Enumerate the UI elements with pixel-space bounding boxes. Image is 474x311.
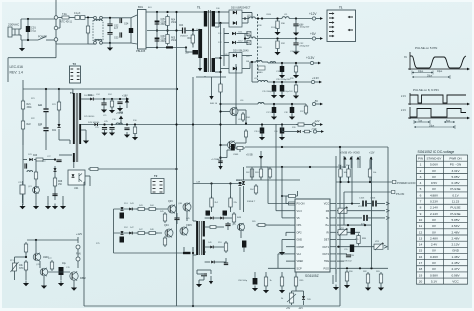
wire T1 primary bottom bbox=[199, 58, 201, 64]
resistor R61 bbox=[235, 146, 245, 149]
junction bbox=[218, 11, 220, 13]
resistor R67 bbox=[287, 202, 298, 205]
wire bbox=[58, 110, 60, 124]
resistor R53 bbox=[210, 196, 213, 209]
wire bbox=[261, 166, 268, 168]
junction bbox=[175, 123, 177, 125]
wire feedback bottom bbox=[84, 305, 340, 307]
junction bbox=[156, 29, 158, 31]
svg-text:-5V: -5V bbox=[314, 99, 318, 103]
wire sec tap1 bbox=[219, 11, 229, 13]
wire bbox=[45, 131, 47, 140]
svg-text:11.23: 11.23 bbox=[452, 200, 460, 204]
resistor R24 bbox=[110, 99, 113, 109]
wire bbox=[185, 48, 187, 53]
svg-text:+5V: +5V bbox=[310, 32, 317, 36]
ground snub bbox=[196, 282, 202, 288]
svg-text:8: 8 bbox=[420, 206, 422, 210]
svg-text:COMP: COMP bbox=[297, 246, 305, 249]
stub R91b bbox=[348, 177, 350, 182]
wire bbox=[237, 33, 249, 35]
junction bbox=[103, 98, 105, 100]
wire bbox=[255, 18, 282, 20]
svg-text:4n7: 4n7 bbox=[114, 27, 119, 30]
svg-text:5.1V: 5.1V bbox=[431, 279, 438, 283]
wire vert ladder 344 bbox=[343, 156, 345, 168]
IC pin left 8 bbox=[290, 253, 295, 255]
IC pin left 7 bbox=[290, 246, 295, 248]
w bbox=[227, 222, 229, 224]
junction bbox=[58, 88, 60, 90]
choke bumps bottom bbox=[94, 39, 101, 40]
waveform W2 dimension 20us bbox=[414, 125, 455, 129]
svg-text:0.1µX: 0.1µX bbox=[74, 12, 81, 15]
wire R28 to x176 bbox=[100, 168, 177, 170]
C24 plates bbox=[101, 103, 106, 105]
T2 pin 2 bbox=[153, 184, 156, 186]
junction bbox=[229, 182, 231, 184]
junction bbox=[281, 166, 283, 168]
wire bbox=[192, 247, 194, 255]
svg-text:MAG: MAG bbox=[258, 71, 263, 74]
svg-text:2.47V: 2.47V bbox=[451, 267, 460, 271]
junction bbox=[281, 62, 283, 64]
waveform W1 dimension 10us bbox=[412, 71, 433, 75]
w2 bbox=[303, 291, 305, 296]
wire bbox=[73, 280, 75, 285]
svg-text:D30 UBR2545CT: D30 UBR2545CT bbox=[231, 7, 251, 10]
wire vert ladder 352 bbox=[351, 156, 353, 168]
wire bbox=[218, 12, 220, 27]
down arrow trafo end bbox=[218, 166, 222, 170]
wire bbox=[103, 17, 120, 19]
junction bbox=[219, 71, 221, 73]
wire bbox=[245, 38, 249, 40]
junction bbox=[273, 103, 275, 105]
wire between fan pins bbox=[77, 249, 79, 257]
wire to POWER GOOD bbox=[336, 181, 392, 183]
arrow pin20 bbox=[386, 202, 389, 205]
svg-text:17: 17 bbox=[419, 261, 423, 265]
w1 bbox=[291, 291, 293, 293]
wire x282 bbox=[281, 167, 283, 218]
junction bbox=[219, 144, 221, 146]
wire -5V feed bbox=[221, 103, 259, 105]
wire vert ladder 360 bbox=[359, 156, 361, 168]
ground C40 bbox=[279, 135, 285, 141]
ground C38 bbox=[289, 114, 295, 120]
ground IC gnd pin bbox=[279, 250, 285, 256]
junction bbox=[295, 17, 297, 19]
ground R82 bbox=[365, 285, 371, 291]
svg-text:3305E T: 3305E T bbox=[247, 201, 256, 203]
svg-text:1.46V: 1.46V bbox=[451, 255, 460, 259]
wire pin2 bbox=[276, 210, 290, 212]
stub bbox=[215, 26, 219, 28]
wire top snub bbox=[197, 269, 211, 271]
wire to pin1 v bbox=[267, 167, 269, 204]
svg-text:+5V: +5V bbox=[286, 308, 291, 310]
T2 pin 3 bbox=[153, 188, 156, 190]
wire down bbox=[192, 31, 194, 36]
stub R92 bbox=[369, 160, 371, 169]
wire x336 long bbox=[335, 168, 337, 282]
resistor R10 bbox=[133, 125, 136, 136]
resistor R66 bbox=[287, 195, 298, 198]
junction bbox=[346, 267, 348, 269]
junction bbox=[281, 123, 283, 125]
wire bbox=[268, 81, 311, 83]
Q41 circle bbox=[228, 141, 236, 150]
junction bbox=[166, 29, 168, 31]
capacitor C06 220u/250V bbox=[155, 38, 160, 42]
wire bbox=[20, 19, 22, 29]
svg-text:+3.3V: +3.3V bbox=[306, 56, 315, 60]
wire bbox=[88, 43, 95, 45]
wire bbox=[110, 42, 119, 44]
bridge rectifier B01 PBL405 bbox=[138, 10, 147, 50]
ground C35 bbox=[271, 93, 277, 99]
wire mid rail bbox=[147, 30, 182, 32]
inductor L31 bbox=[282, 17, 289, 19]
svg-text:NTC 4D-11: NTC 4D-11 bbox=[60, 21, 73, 24]
wire bbox=[260, 159, 262, 167]
svg-text:20µs: 20µs bbox=[429, 124, 435, 127]
wire bbox=[186, 51, 193, 53]
svg-text:0.46V: 0.46V bbox=[430, 255, 439, 259]
svg-text:13: 13 bbox=[419, 236, 423, 240]
svg-text:T4A: T4A bbox=[62, 12, 67, 16]
svg-text:150k: 150k bbox=[171, 22, 177, 24]
junction bbox=[35, 239, 37, 241]
junction bbox=[281, 146, 283, 148]
svg-text:D23: D23 bbox=[33, 155, 38, 157]
svg-text:PULSE on 5 PIN: PULSE on 5 PIN bbox=[415, 46, 437, 50]
svg-text:10µ: 10µ bbox=[62, 263, 67, 265]
resistor R47 bbox=[136, 232, 147, 235]
svg-text:C04: C04 bbox=[179, 25, 184, 27]
svg-text:D20 SBL2040: D20 SBL2040 bbox=[233, 50, 249, 53]
wire pin5 stub bbox=[286, 231, 290, 233]
wire pin12 stub bbox=[337, 260, 344, 262]
wire Q40 base bbox=[221, 111, 231, 113]
wire bbox=[77, 237, 79, 243]
wire pin8 down bbox=[277, 254, 279, 268]
svg-text:1: 1 bbox=[420, 163, 422, 167]
up arrow pin 371 bbox=[369, 157, 372, 169]
svg-text:R40 10: R40 10 bbox=[210, 103, 218, 105]
T3 pin 2 bbox=[71, 72, 74, 74]
wire r5 bbox=[205, 261, 210, 263]
svg-text:+12V: +12V bbox=[369, 153, 375, 155]
svg-text:+5VSB VO+ VGND: +5VSB VO+ VGND bbox=[340, 153, 360, 155]
wire -12V rail bbox=[236, 124, 298, 126]
stub r4 bbox=[205, 251, 206, 253]
resistor R75 bbox=[24, 242, 27, 254]
ZD62 symbol bbox=[238, 182, 241, 185]
wire x276 from y124 bbox=[275, 124, 277, 211]
svg-text:T3: T3 bbox=[73, 62, 77, 66]
svg-text:VREF: VREF bbox=[297, 260, 304, 263]
wire bbox=[252, 61, 256, 63]
wire stub R98 bbox=[281, 272, 283, 277]
svg-text:OUT1: OUT1 bbox=[322, 246, 329, 249]
wire bbox=[130, 35, 132, 43]
svg-text:2.48V: 2.48V bbox=[451, 230, 460, 234]
varistor X2 bbox=[247, 41, 251, 45]
wire pin14 bbox=[337, 246, 374, 248]
resistor R43 bbox=[136, 208, 147, 211]
junction bbox=[244, 37, 246, 39]
resistor R37 bbox=[304, 104, 307, 115]
junction bbox=[27, 18, 29, 20]
svg-text:5.06V: 5.06V bbox=[430, 163, 439, 167]
svg-text:6: 6 bbox=[420, 193, 422, 197]
svg-text:C39 470µ: C39 470µ bbox=[254, 131, 264, 133]
wire bbox=[295, 39, 297, 44]
wire bbox=[69, 17, 75, 19]
T2 pin 4 bbox=[153, 191, 156, 193]
wire stub bbox=[35, 160, 37, 173]
wire pin18 bbox=[337, 217, 362, 219]
wire bbox=[55, 41, 57, 44]
wire bbox=[89, 176, 91, 186]
wire pin8 bbox=[278, 253, 290, 255]
wire bbox=[35, 193, 37, 204]
capacitor C04 bbox=[129, 26, 133, 35]
down arrow A1 bbox=[209, 77, 213, 100]
wire bbox=[25, 270, 27, 280]
svg-text:3: 3 bbox=[420, 175, 422, 179]
resistor R96 bbox=[345, 270, 348, 283]
svg-text:C37 470µ: C37 470µ bbox=[266, 112, 276, 114]
wire bbox=[196, 270, 198, 274]
wire y167 bbox=[246, 166, 346, 168]
Q03b circle bbox=[183, 203, 191, 212]
wire sec tap2 bbox=[215, 22, 229, 24]
switch S1 POWER bbox=[38, 37, 46, 41]
up arrow pin 345 bbox=[343, 157, 346, 169]
svg-text:FB: FB bbox=[326, 210, 330, 213]
wire pin11 long bbox=[337, 267, 388, 269]
junction bbox=[339, 181, 341, 183]
wire bbox=[54, 186, 56, 200]
junction bbox=[351, 202, 353, 204]
wire bbox=[214, 217, 220, 219]
svg-text:POWER: POWER bbox=[38, 36, 47, 39]
wire below T1 y77 bbox=[196, 76, 226, 78]
svg-text:PGO: PGO bbox=[323, 267, 329, 270]
stub pin19 bbox=[337, 210, 338, 212]
C52 plates bbox=[201, 274, 207, 276]
wire bbox=[43, 276, 45, 283]
wire bend c bbox=[227, 149, 231, 151]
svg-text:10: 10 bbox=[419, 218, 423, 222]
wire bbox=[130, 18, 132, 26]
C40 body bbox=[280, 126, 285, 136]
Q05 circle bbox=[180, 227, 188, 236]
wire pin20 bbox=[337, 203, 360, 205]
arrow pin14 bbox=[384, 245, 387, 248]
svg-text:TRE: TRE bbox=[324, 260, 329, 263]
wire bbox=[103, 105, 105, 108]
C39 body bbox=[260, 126, 265, 136]
svg-text:2.54V: 2.54V bbox=[451, 224, 460, 228]
D23 symbol bbox=[29, 158, 32, 161]
ground standby 22.5 bbox=[19, 204, 25, 210]
junction bbox=[337, 246, 339, 248]
svg-text:20µs: 20µs bbox=[427, 74, 433, 77]
wire stub above y89 bbox=[22, 80, 24, 89]
inductor L33 bbox=[256, 61, 262, 62]
wire bbox=[242, 22, 248, 24]
capacitor C07 bbox=[193, 50, 199, 55]
junction bbox=[309, 166, 311, 168]
svg-text:0.23V: 0.23V bbox=[430, 200, 439, 204]
wire bbox=[376, 203, 385, 205]
wire bbox=[176, 213, 178, 218]
capacitor C42 bbox=[120, 213, 125, 219]
wire bbox=[103, 99, 105, 103]
wire into bridge 2 bbox=[131, 43, 137, 44]
resistor R91 bbox=[347, 167, 350, 179]
down arrow snub bbox=[209, 276, 213, 284]
IC pin left 9 bbox=[290, 260, 295, 262]
3.3V regulator parts bbox=[258, 66, 265, 70]
junction bbox=[192, 305, 194, 307]
ground R24 bbox=[109, 108, 115, 114]
wire bbox=[15, 256, 27, 258]
wire x344 segment bbox=[343, 192, 345, 225]
trimpot VR3 bbox=[374, 242, 384, 250]
wire earth loop b bbox=[8, 57, 56, 59]
wire below C61b bbox=[243, 248, 245, 253]
wire bbox=[87, 19, 89, 24]
junction bbox=[192, 28, 194, 30]
wire bbox=[224, 42, 229, 44]
capacitor C54 bbox=[223, 211, 228, 216]
C28 plates bbox=[25, 163, 27, 168]
wire y183 bbox=[193, 183, 244, 185]
wire bbox=[45, 112, 47, 128]
choke pin circle 2 bbox=[100, 16, 103, 19]
IC pin left 4 bbox=[290, 224, 295, 226]
stub R63b bbox=[269, 167, 271, 169]
svg-text:11: 11 bbox=[419, 224, 422, 228]
svg-text:2.48V: 2.48V bbox=[430, 236, 439, 240]
C38 body bbox=[290, 105, 295, 115]
resistor R04 bbox=[166, 15, 169, 28]
wire bbox=[289, 18, 312, 20]
svg-text:R02: R02 bbox=[188, 38, 193, 40]
output -5V bbox=[312, 102, 323, 105]
cap CY2 plates bbox=[107, 33, 112, 35]
junction bbox=[219, 157, 221, 159]
wire aux row bbox=[81, 98, 90, 100]
wire feedback right bbox=[339, 147, 341, 306]
wire bbox=[250, 61, 252, 63]
wirex2 bbox=[25, 252, 27, 257]
junction bbox=[210, 182, 212, 184]
svg-text:L30B: L30B bbox=[247, 36, 252, 38]
resistor R48b bbox=[163, 236, 166, 247]
wire bbox=[214, 246, 226, 248]
resistor R63b bbox=[268, 167, 271, 179]
wire from T2 bbox=[81, 124, 94, 126]
wire bbox=[85, 17, 95, 19]
wire bbox=[282, 131, 297, 133]
svg-text:14: 14 bbox=[419, 243, 423, 247]
connector box T2 bbox=[151, 179, 164, 194]
svg-text:D25 SB140: D25 SB140 bbox=[84, 116, 95, 118]
svg-text:2.48V: 2.48V bbox=[451, 236, 460, 240]
svg-text:2.14V: 2.14V bbox=[430, 212, 439, 216]
wire between R04 R05 bbox=[167, 26, 169, 35]
varistor X1 bbox=[247, 32, 251, 36]
wire to T2 primary bbox=[59, 139, 70, 141]
wire to PS-ON bbox=[344, 191, 391, 193]
wire bbox=[81, 129, 86, 131]
electrolytic C29 bbox=[20, 181, 25, 194]
svg-text:PBL405: PBL405 bbox=[136, 49, 146, 53]
up arrow 5VSB branch bbox=[119, 116, 123, 125]
resistor R29 bbox=[34, 170, 37, 181]
svg-text:2.1V: 2.1V bbox=[401, 109, 406, 112]
resistor R97 1k bbox=[264, 275, 267, 288]
wire earth loop c bbox=[7, 58, 9, 82]
fuse F01 T4A bbox=[62, 16, 69, 19]
transformer T2 standby bbox=[73, 93, 81, 144]
noop bbox=[357, 203, 359, 205]
transformer T1 core bbox=[208, 10, 210, 72]
inductor L02 bbox=[81, 16, 86, 20]
junction bbox=[347, 224, 349, 226]
junction bbox=[27, 39, 29, 41]
cap CY1 plates bbox=[107, 24, 112, 26]
wire bbox=[295, 19, 297, 25]
output +5V bbox=[312, 37, 323, 40]
electrolytic C61 bbox=[231, 144, 235, 151]
wire bbox=[54, 166, 56, 178]
transformer T2 lower aux winding bbox=[73, 153, 75, 162]
inductor L32 bbox=[249, 37, 255, 39]
capacitor C01 0.1u/250V bbox=[26, 19, 30, 40]
svg-text:3300µ: 3300µ bbox=[271, 27, 277, 29]
ground T2 sec bbox=[83, 138, 89, 144]
wire bbox=[55, 30, 57, 38]
waveform W1 dimension 20us bbox=[412, 75, 450, 79]
svg-text:SG6105Z IC DC-voltage: SG6105Z IC DC-voltage bbox=[418, 150, 455, 154]
junction bbox=[166, 46, 168, 48]
svg-text:C32 2200µ: C32 2200µ bbox=[290, 51, 301, 53]
capacitor C22 bbox=[43, 128, 48, 131]
IC pin right 11 bbox=[330, 267, 336, 269]
IC pin right 19 bbox=[330, 210, 336, 212]
wire bbox=[119, 42, 131, 44]
arrow pin19 bbox=[386, 209, 389, 212]
wire bbox=[58, 17, 62, 19]
AC plug P1 bbox=[8, 27, 19, 37]
wire x243 upper bbox=[243, 167, 245, 180]
line filter L01 dashed box bbox=[93, 21, 103, 41]
wire trim top bbox=[292, 290, 304, 292]
Q04 circle bbox=[165, 229, 173, 238]
capacitor C90 100u/16V bbox=[253, 272, 258, 285]
wire bbox=[59, 19, 61, 28]
connector pin 5 bbox=[329, 31, 332, 33]
ground C10 bbox=[124, 132, 130, 138]
trimmer VR4 bbox=[287, 293, 296, 303]
